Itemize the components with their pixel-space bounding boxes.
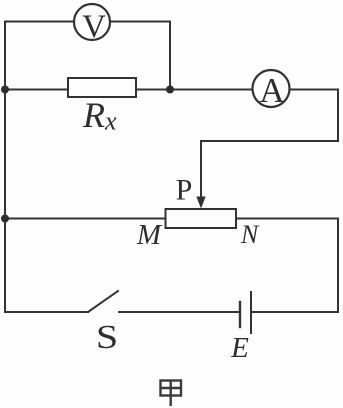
junction node left upper (1, 86, 9, 94)
wire N side (236, 218, 338, 220)
voltmeter V (74, 4, 110, 40)
wire right vertical lower (337, 219, 339, 313)
svg-text:M: M (136, 219, 163, 251)
wire right vertical upper (337, 90, 339, 142)
svg-text:A: A (259, 71, 285, 110)
junction node left lower (1, 215, 9, 223)
wire bottom left to switch (5, 311, 88, 313)
wire ammeter to right edge (290, 89, 339, 91)
resistor Rx (68, 78, 136, 97)
battery E positive plate (250, 292, 252, 333)
wire battery to right edge (251, 311, 338, 313)
wire voltmeter to corner (110, 21, 170, 23)
slider arrowhead (196, 197, 205, 209)
svg-text:N: N (240, 220, 260, 249)
battery E negative plate (239, 302, 241, 327)
svg-text:E: E (230, 332, 249, 364)
potentiometer MN (166, 209, 237, 228)
caption jia character (161, 381, 182, 407)
svg-text:V: V (82, 9, 106, 45)
wire left vertical (4, 22, 6, 313)
junction node voltmeter branch (166, 86, 174, 94)
wire slider stem (200, 141, 202, 198)
wire horizontal to slider (201, 140, 338, 142)
ammeter A (253, 70, 290, 107)
wire top left to voltmeter (5, 21, 74, 23)
svg-text:S: S (96, 319, 118, 356)
switch S blade (88, 291, 118, 312)
svg-text:P: P (176, 174, 193, 207)
wire Rx to ammeter (136, 89, 253, 91)
wire switch to battery (119, 311, 240, 313)
wire left node to Rx (5, 89, 68, 91)
wire voltmeter branch vertical (169, 22, 171, 90)
wire M side (5, 218, 166, 220)
